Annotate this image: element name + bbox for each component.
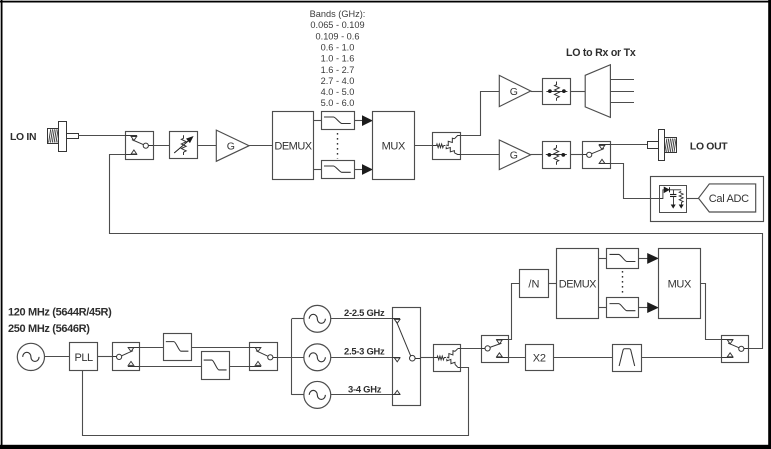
- wire SW3 to FL3: [140, 347, 164, 349]
- oscillator OSC1: [304, 305, 331, 332]
- wire PS2 to PLL (feedback loop): [83, 368, 469, 436]
- wire FL7 to SW7: [641, 357, 721, 359]
- filter FL2 (low-pass): [322, 161, 355, 179]
- wire AT1 to A1: [198, 145, 217, 147]
- switch SW5 (band select SP3T): [392, 308, 421, 406]
- wire AT3 to SW2: [570, 154, 582, 156]
- filter FL5 (low-pass): [607, 249, 639, 269]
- svg-text:Cal ADC: Cal ADC: [709, 193, 749, 205]
- power splitter PS2: [433, 345, 460, 372]
- filter FL6 (low-pass): [607, 298, 639, 318]
- wire J1 to SW1: [78, 135, 125, 137]
- svg-text:Bands (GHz):: Bands (GHz):: [310, 9, 366, 19]
- amplifier A2 (G): [499, 75, 530, 106]
- wire A3 to AT3: [531, 154, 543, 156]
- svg-text:LO to Rx or Tx: LO to Rx or Tx: [566, 47, 636, 59]
- dotted line (bottom bands): [622, 271, 624, 296]
- attenuator AT3: [543, 142, 571, 169]
- wire D1 to Cal ADC: [687, 198, 699, 200]
- svg-text:1.0 - 1.6: 1.0 - 1.6: [321, 54, 355, 64]
- wire FL2 to arrow: [354, 169, 362, 171]
- wire DEMUX2 to FL5: [598, 258, 607, 260]
- svg-text:DEMUX: DEMUX: [559, 278, 597, 290]
- svg-text:LO IN: LO IN: [10, 132, 36, 143]
- wire SW5 to PS2: [421, 357, 434, 359]
- filter FL4 (low-pass): [202, 352, 230, 380]
- svg-text:2.5-3 GHz: 2.5-3 GHz: [344, 345, 385, 356]
- wire A2 to AT2: [531, 91, 543, 93]
- svg-text:0.109 - 0.6: 0.109 - 0.6: [316, 31, 360, 41]
- dotted line (bands 2..7): [337, 133, 339, 159]
- detector D1: [660, 186, 687, 213]
- filter FL7 (band-pass): [613, 345, 642, 372]
- wire SW2 to cal detector: [611, 164, 660, 199]
- wire SW6 to /N (riser): [509, 284, 520, 340]
- wire SW6 to X2: [508, 357, 526, 359]
- connector J1 (LO IN): [48, 122, 79, 152]
- multiplier U7 (X2): [526, 345, 554, 371]
- svg-text:0.065 - 0.109: 0.065 - 0.109: [310, 20, 364, 30]
- svg-text:LO OUT: LO OUT: [690, 142, 728, 153]
- svg-text:120 MHz (5644R/45R): 120 MHz (5644R/45R): [8, 306, 112, 318]
- wire A1 to DEMUX1: [249, 145, 272, 147]
- svg-text:2.7 - 4.0: 2.7 - 4.0: [321, 76, 355, 86]
- svg-text:G: G: [510, 150, 518, 162]
- wire SW4 to oscillator bank: [278, 319, 304, 395]
- switch SW7 (output select): [722, 336, 749, 363]
- svg-text:0.6 - 1.0: 0.6 - 1.0: [321, 42, 355, 52]
- arrow into MUX1 upper: [362, 116, 372, 125]
- svg-text:4.0 - 5.0: 4.0 - 5.0: [321, 87, 355, 97]
- svg-text:X2: X2: [533, 352, 546, 364]
- wire PS1 to A2 (riser): [461, 92, 500, 136]
- wire FL5 to arrow: [639, 258, 648, 260]
- filter FL1 (low-pass): [322, 112, 355, 130]
- mux U2 (MUX): [373, 112, 415, 180]
- attenuator AT1 (variable): [170, 132, 198, 159]
- arrow into MUX2 upper: [648, 254, 658, 264]
- wire FL1 to arrow: [354, 120, 362, 122]
- oscillator OSC2: [304, 344, 331, 371]
- wire MUX1 to PS1: [414, 145, 433, 147]
- wire DEMUX2 to FL6: [598, 307, 607, 309]
- svg-text:G: G: [510, 86, 518, 98]
- connector J2 (LO OUT): [648, 130, 677, 161]
- wire SW1 to AT1: [153, 145, 170, 147]
- svg-text:MUX: MUX: [382, 140, 406, 152]
- amplifier A3 (G): [499, 140, 530, 170]
- wire SW3 to FL4: [140, 366, 202, 368]
- wire SW2 to J2: [611, 144, 648, 146]
- power splitter PS1: [433, 133, 461, 160]
- switch SW3: [113, 343, 140, 371]
- LO to Rx or Tx distribution (trapezoid): [585, 65, 634, 118]
- wire FL6 to arrow: [639, 307, 648, 309]
- wire FL3 to SW4: [191, 347, 249, 349]
- label reference frequencies: [8, 306, 112, 335]
- wire X2 to FL7: [553, 357, 613, 359]
- svg-text:2-2.5 GHz: 2-2.5 GHz: [344, 307, 385, 318]
- wire DEMUX1 to FL2: [314, 169, 321, 171]
- svg-text:1.6 - 2.7: 1.6 - 2.7: [321, 65, 355, 75]
- wire DEMUX1 to FL1: [314, 120, 321, 122]
- svg-text:G: G: [227, 141, 235, 153]
- wire /N to DEMUX2: [548, 283, 557, 285]
- wire OSC3 to SW5: [331, 394, 392, 396]
- oscillator OSC0 (reference): [17, 343, 44, 370]
- arrow into MUX1 lower: [362, 165, 372, 174]
- divider U4 (/N): [520, 270, 549, 298]
- Cal ADC tag: [699, 184, 756, 212]
- arrow into MUX2 lower: [648, 303, 658, 313]
- mux U6 (MUX): [659, 249, 701, 319]
- cal module box: [651, 177, 764, 222]
- wire PS1 to A3: [461, 154, 500, 156]
- svg-text:3-4 GHz: 3-4 GHz: [348, 383, 382, 394]
- svg-text:PLL: PLL: [75, 352, 93, 364]
- svg-text:250 MHz (5646R): 250 MHz (5646R): [8, 323, 90, 335]
- wire FL4 to SW4: [229, 366, 249, 368]
- switch SW1 (LO source select): [125, 132, 153, 160]
- wire PLL to SW3: [98, 356, 113, 358]
- wire MUX2 to SW7: [701, 284, 722, 340]
- wire OSC0 to PLL: [45, 356, 70, 358]
- pll U3 (PLL): [70, 343, 98, 371]
- switch SW4: [249, 343, 277, 371]
- demux U5 (DEMUX): [557, 249, 599, 319]
- switch SW6 (/N - X2 select): [481, 336, 509, 363]
- wire PS2 to SW6: [461, 348, 482, 350]
- attenuator AT2: [543, 79, 571, 105]
- wire AT2 to Rx/Tx distribution: [571, 91, 585, 93]
- wire feedback SW7 to SW1: [110, 155, 763, 349]
- switch SW2 (LO OUT select): [583, 142, 611, 169]
- label band list: [310, 9, 366, 108]
- wire OSC2 to SW5: [331, 357, 392, 359]
- filter FL3 (low-pass): [164, 334, 192, 361]
- svg-text:DEMUX: DEMUX: [274, 140, 312, 152]
- demux U1 (DEMUX): [273, 112, 314, 180]
- oscillator OSC3: [304, 381, 331, 408]
- svg-text:MUX: MUX: [668, 278, 692, 290]
- amplifier A1 (G): [216, 130, 249, 161]
- wire OSC1 to SW5: [331, 318, 392, 320]
- svg-text:5.0 - 6.0: 5.0 - 6.0: [321, 98, 355, 108]
- svg-text:/N: /N: [528, 279, 539, 291]
